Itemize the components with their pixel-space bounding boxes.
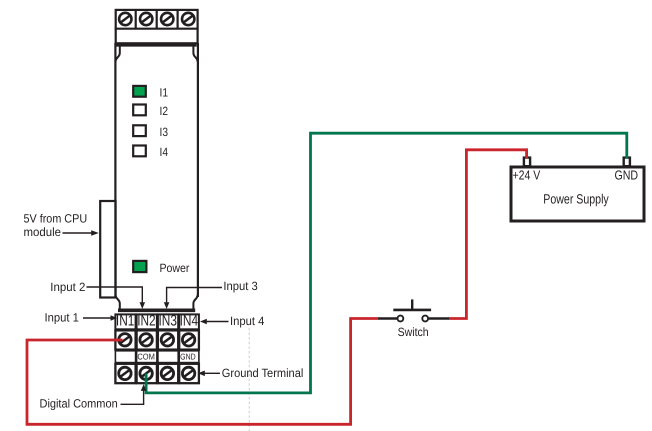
switch S1 [378,299,450,321]
leader Digital Common [121,391,144,405]
bottom terminal block IN row [115,314,198,329]
power supply box [511,167,644,221]
switch lead left [378,317,397,320]
svg-text:Input 3: Input 3 [223,279,258,293]
leader Input 4 [207,321,229,323]
guide dashed line [248,328,250,431]
screw COM (digital common) [140,367,152,379]
COM GND label row [115,351,198,363]
leader Ground Terminal [205,372,221,374]
screw common 3 [161,367,173,379]
svg-text:IN1: IN1 [116,312,134,329]
switch lead right [429,317,450,320]
module top screw 2 [140,13,152,25]
screw IN3 [161,334,173,346]
screw IN1 [119,334,131,346]
module top screw 1 [119,13,131,25]
switch bar [393,309,431,312]
svg-text:GND: GND [615,167,639,182]
module top screw 3 [161,13,173,25]
svg-text:Switch: Switch [398,325,429,339]
terminal GND [624,158,630,167]
module body outline [115,43,197,310]
svg-text:IN4: IN4 [180,312,198,329]
leader Input 2 [87,287,143,303]
LED I3 [133,125,146,136]
svg-text:Digital Common: Digital Common [40,396,118,410]
terminal screw row 2 cells [115,364,198,383]
terminal screw row 1 cells [115,330,198,349]
svg-text:COM: COM [137,351,155,361]
svg-text:5V from CPU: 5V from CPU [24,212,88,226]
CPU connector bracket [100,201,115,298]
svg-text:I2: I2 [160,104,169,118]
terminal +24V [524,158,530,167]
leader Input 3 [167,288,222,303]
svg-text:Power Supply: Power Supply [543,191,609,206]
screw IN2 [140,334,152,346]
svg-text:IN2: IN2 [137,312,155,329]
svg-text:I1: I1 [160,86,169,100]
module top terminal housing [115,10,199,43]
svg-text:Input 1: Input 1 [45,310,80,324]
LED I2 [133,105,146,116]
svg-text:module: module [24,225,62,239]
svg-text:IN3: IN3 [159,312,177,329]
svg-text:+24 V: +24 V [513,167,541,182]
svg-text:Power: Power [160,261,190,275]
LED I1 [133,86,146,97]
module top screw 4 [182,13,194,25]
svg-text:I4: I4 [160,145,169,159]
switch stem [411,299,413,310]
screw IN4 [182,334,194,346]
svg-text:I3: I3 [160,125,169,139]
wire red: IN1 to switch [27,319,378,425]
wire red: switch to +24V [449,150,526,319]
switch contact left [398,316,404,322]
leader Input 1 [83,317,111,319]
LED Power [133,261,146,272]
svg-text:Input 2: Input 2 [50,280,85,294]
screw common 1 [119,367,131,379]
svg-text:Ground Terminal: Ground Terminal [222,366,304,380]
LED I4 [133,146,146,157]
switch contact right [422,316,428,322]
wire green: COM to supply GND [146,133,627,393]
leader 5V arrow [63,232,92,234]
svg-text:GND: GND [180,351,195,361]
svg-text:Input 4: Input 4 [230,314,265,328]
screw ground [182,367,194,379]
